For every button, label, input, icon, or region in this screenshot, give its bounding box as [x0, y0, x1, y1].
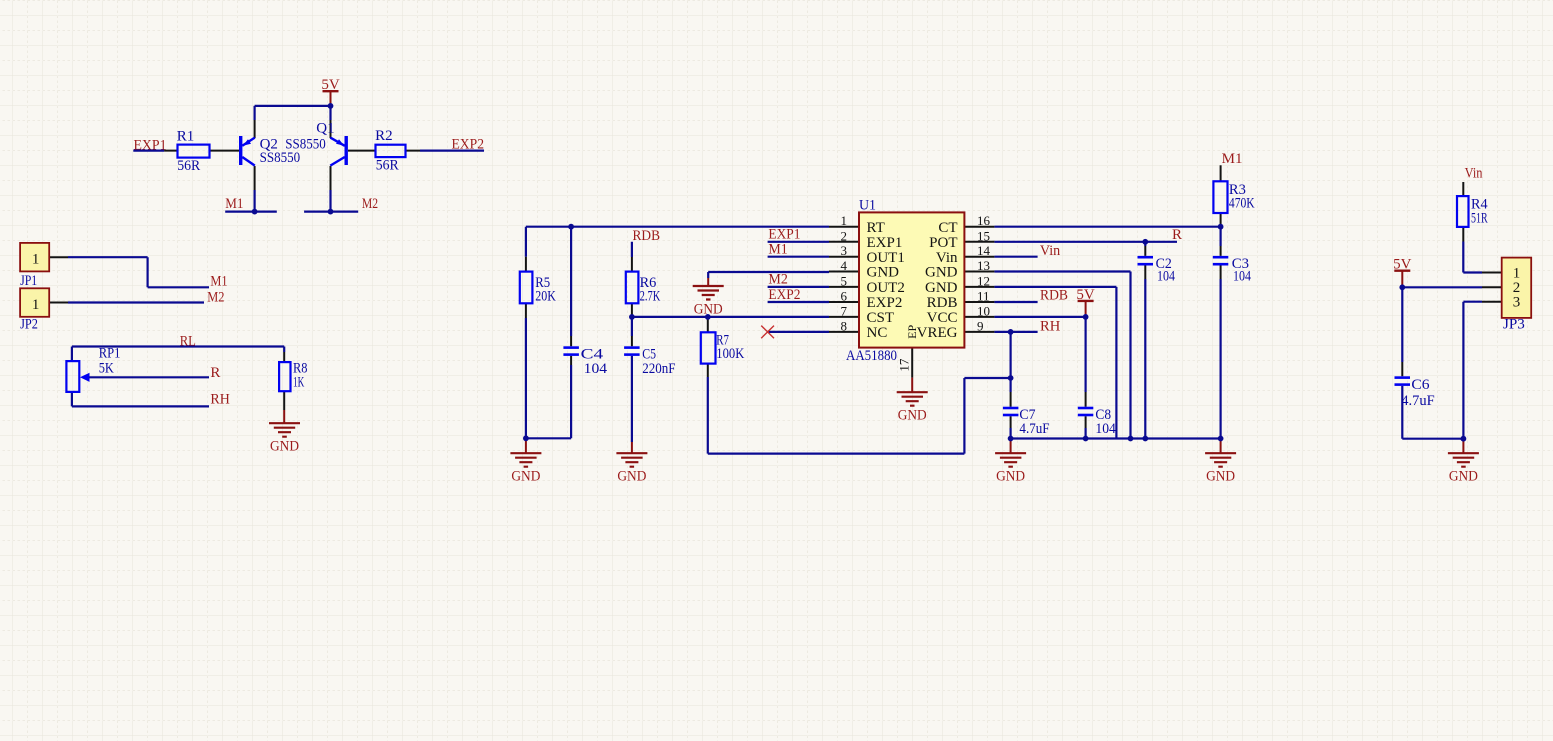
- svg-text:1: 1: [841, 213, 848, 228]
- svg-text:OUT1: OUT1: [867, 250, 905, 266]
- svg-text:8: 8: [841, 318, 848, 333]
- svg-text:RH: RH: [210, 392, 230, 408]
- svg-text:R1: R1: [177, 129, 195, 145]
- svg-text:M1: M1: [210, 273, 227, 289]
- svg-text:POT: POT: [929, 235, 957, 251]
- svg-text:Q1: Q1: [316, 120, 334, 136]
- svg-text:3: 3: [1513, 295, 1521, 311]
- svg-text:C6: C6: [1411, 377, 1430, 393]
- svg-text:1K: 1K: [293, 375, 304, 391]
- svg-text:9: 9: [977, 318, 984, 333]
- svg-text:20K: 20K: [535, 289, 556, 305]
- svg-text:EXP2: EXP2: [768, 287, 800, 303]
- svg-text:1: 1: [1513, 265, 1521, 281]
- svg-text:C5: C5: [642, 346, 656, 362]
- svg-text:2: 2: [841, 228, 848, 243]
- svg-text:Vin: Vin: [936, 250, 958, 266]
- svg-text:JP3: JP3: [1503, 316, 1525, 332]
- svg-text:GND: GND: [270, 439, 299, 455]
- svg-text:GND: GND: [1206, 469, 1235, 485]
- svg-text:M2: M2: [362, 196, 378, 212]
- svg-text:CT: CT: [938, 220, 957, 236]
- svg-text:51R: 51R: [1471, 211, 1488, 227]
- svg-text:GND: GND: [996, 469, 1025, 485]
- svg-text:104: 104: [1157, 269, 1175, 285]
- svg-text:5: 5: [841, 273, 848, 288]
- svg-text:EXP1: EXP1: [134, 137, 167, 153]
- svg-text:RH: RH: [1040, 319, 1060, 335]
- svg-text:EXP1: EXP1: [768, 227, 800, 243]
- svg-text:RT: RT: [867, 220, 885, 236]
- svg-text:Vin: Vin: [1040, 243, 1061, 259]
- svg-text:15: 15: [977, 228, 990, 243]
- svg-text:JP1: JP1: [20, 273, 37, 289]
- svg-text:470K: 470K: [1229, 196, 1255, 212]
- svg-text:6: 6: [841, 289, 848, 304]
- svg-text:11: 11: [977, 289, 990, 304]
- svg-text:M1: M1: [225, 196, 243, 212]
- svg-text:12: 12: [977, 273, 990, 288]
- svg-text:GND: GND: [694, 301, 723, 317]
- svg-text:1: 1: [32, 297, 40, 313]
- svg-text:56R: 56R: [177, 158, 200, 174]
- svg-text:M1: M1: [768, 242, 787, 258]
- svg-text:1: 1: [32, 251, 40, 267]
- svg-text:14: 14: [977, 243, 991, 258]
- svg-text:220nF: 220nF: [642, 361, 675, 377]
- svg-text:NC: NC: [867, 325, 888, 341]
- svg-text:4.7uF: 4.7uF: [1401, 393, 1434, 409]
- svg-text:RDB: RDB: [633, 228, 661, 244]
- svg-text:C4: C4: [581, 346, 604, 362]
- svg-text:R: R: [1172, 227, 1182, 243]
- svg-text:AA51880: AA51880: [846, 348, 897, 364]
- svg-text:GND: GND: [1449, 469, 1478, 485]
- svg-text:GND: GND: [867, 265, 900, 281]
- svg-text:104: 104: [584, 361, 608, 377]
- svg-text:RL: RL: [180, 333, 196, 349]
- svg-text:13: 13: [977, 258, 990, 273]
- svg-text:R: R: [210, 365, 220, 381]
- svg-text:5K: 5K: [99, 361, 114, 377]
- svg-text:U1: U1: [859, 198, 876, 214]
- svg-text:5V: 5V: [321, 77, 340, 93]
- svg-text:17: 17: [897, 358, 912, 372]
- svg-text:GND: GND: [511, 469, 540, 485]
- svg-text:RDB: RDB: [1040, 288, 1068, 304]
- svg-text:RP1: RP1: [99, 346, 121, 362]
- svg-text:5V: 5V: [1393, 257, 1412, 273]
- svg-text:OUT2: OUT2: [867, 280, 905, 296]
- svg-text:CST: CST: [867, 310, 895, 326]
- svg-text:M2: M2: [768, 272, 788, 288]
- svg-text:16: 16: [977, 213, 991, 228]
- svg-text:3: 3: [841, 243, 848, 258]
- svg-text:EXP2: EXP2: [452, 137, 485, 153]
- svg-text:VCC: VCC: [927, 310, 958, 326]
- svg-text:RDB: RDB: [927, 295, 958, 311]
- svg-text:56R: 56R: [376, 158, 399, 174]
- svg-text:GND: GND: [925, 280, 958, 296]
- svg-text:100K: 100K: [716, 346, 744, 362]
- svg-text:104: 104: [1233, 269, 1251, 285]
- svg-text:4.7uF: 4.7uF: [1019, 421, 1049, 437]
- svg-text:2.7K: 2.7K: [640, 289, 661, 305]
- svg-text:104: 104: [1095, 421, 1116, 437]
- svg-text:Vin: Vin: [1465, 166, 1483, 182]
- svg-text:EXP2: EXP2: [867, 295, 903, 311]
- svg-text:10: 10: [977, 303, 990, 318]
- svg-text:GND: GND: [898, 408, 927, 424]
- svg-text:5V: 5V: [1076, 287, 1095, 303]
- svg-text:SS8550: SS8550: [260, 150, 301, 166]
- svg-text:M2: M2: [207, 290, 224, 306]
- svg-text:R2: R2: [375, 128, 393, 144]
- svg-text:GND: GND: [925, 265, 958, 281]
- svg-text:4: 4: [841, 258, 848, 273]
- svg-text:M1: M1: [1222, 151, 1243, 167]
- svg-text:7: 7: [841, 303, 848, 318]
- svg-text:JP2: JP2: [20, 316, 38, 332]
- svg-text:VREG: VREG: [917, 325, 958, 341]
- svg-text:GND: GND: [617, 469, 646, 485]
- svg-text:EXP1: EXP1: [867, 235, 903, 251]
